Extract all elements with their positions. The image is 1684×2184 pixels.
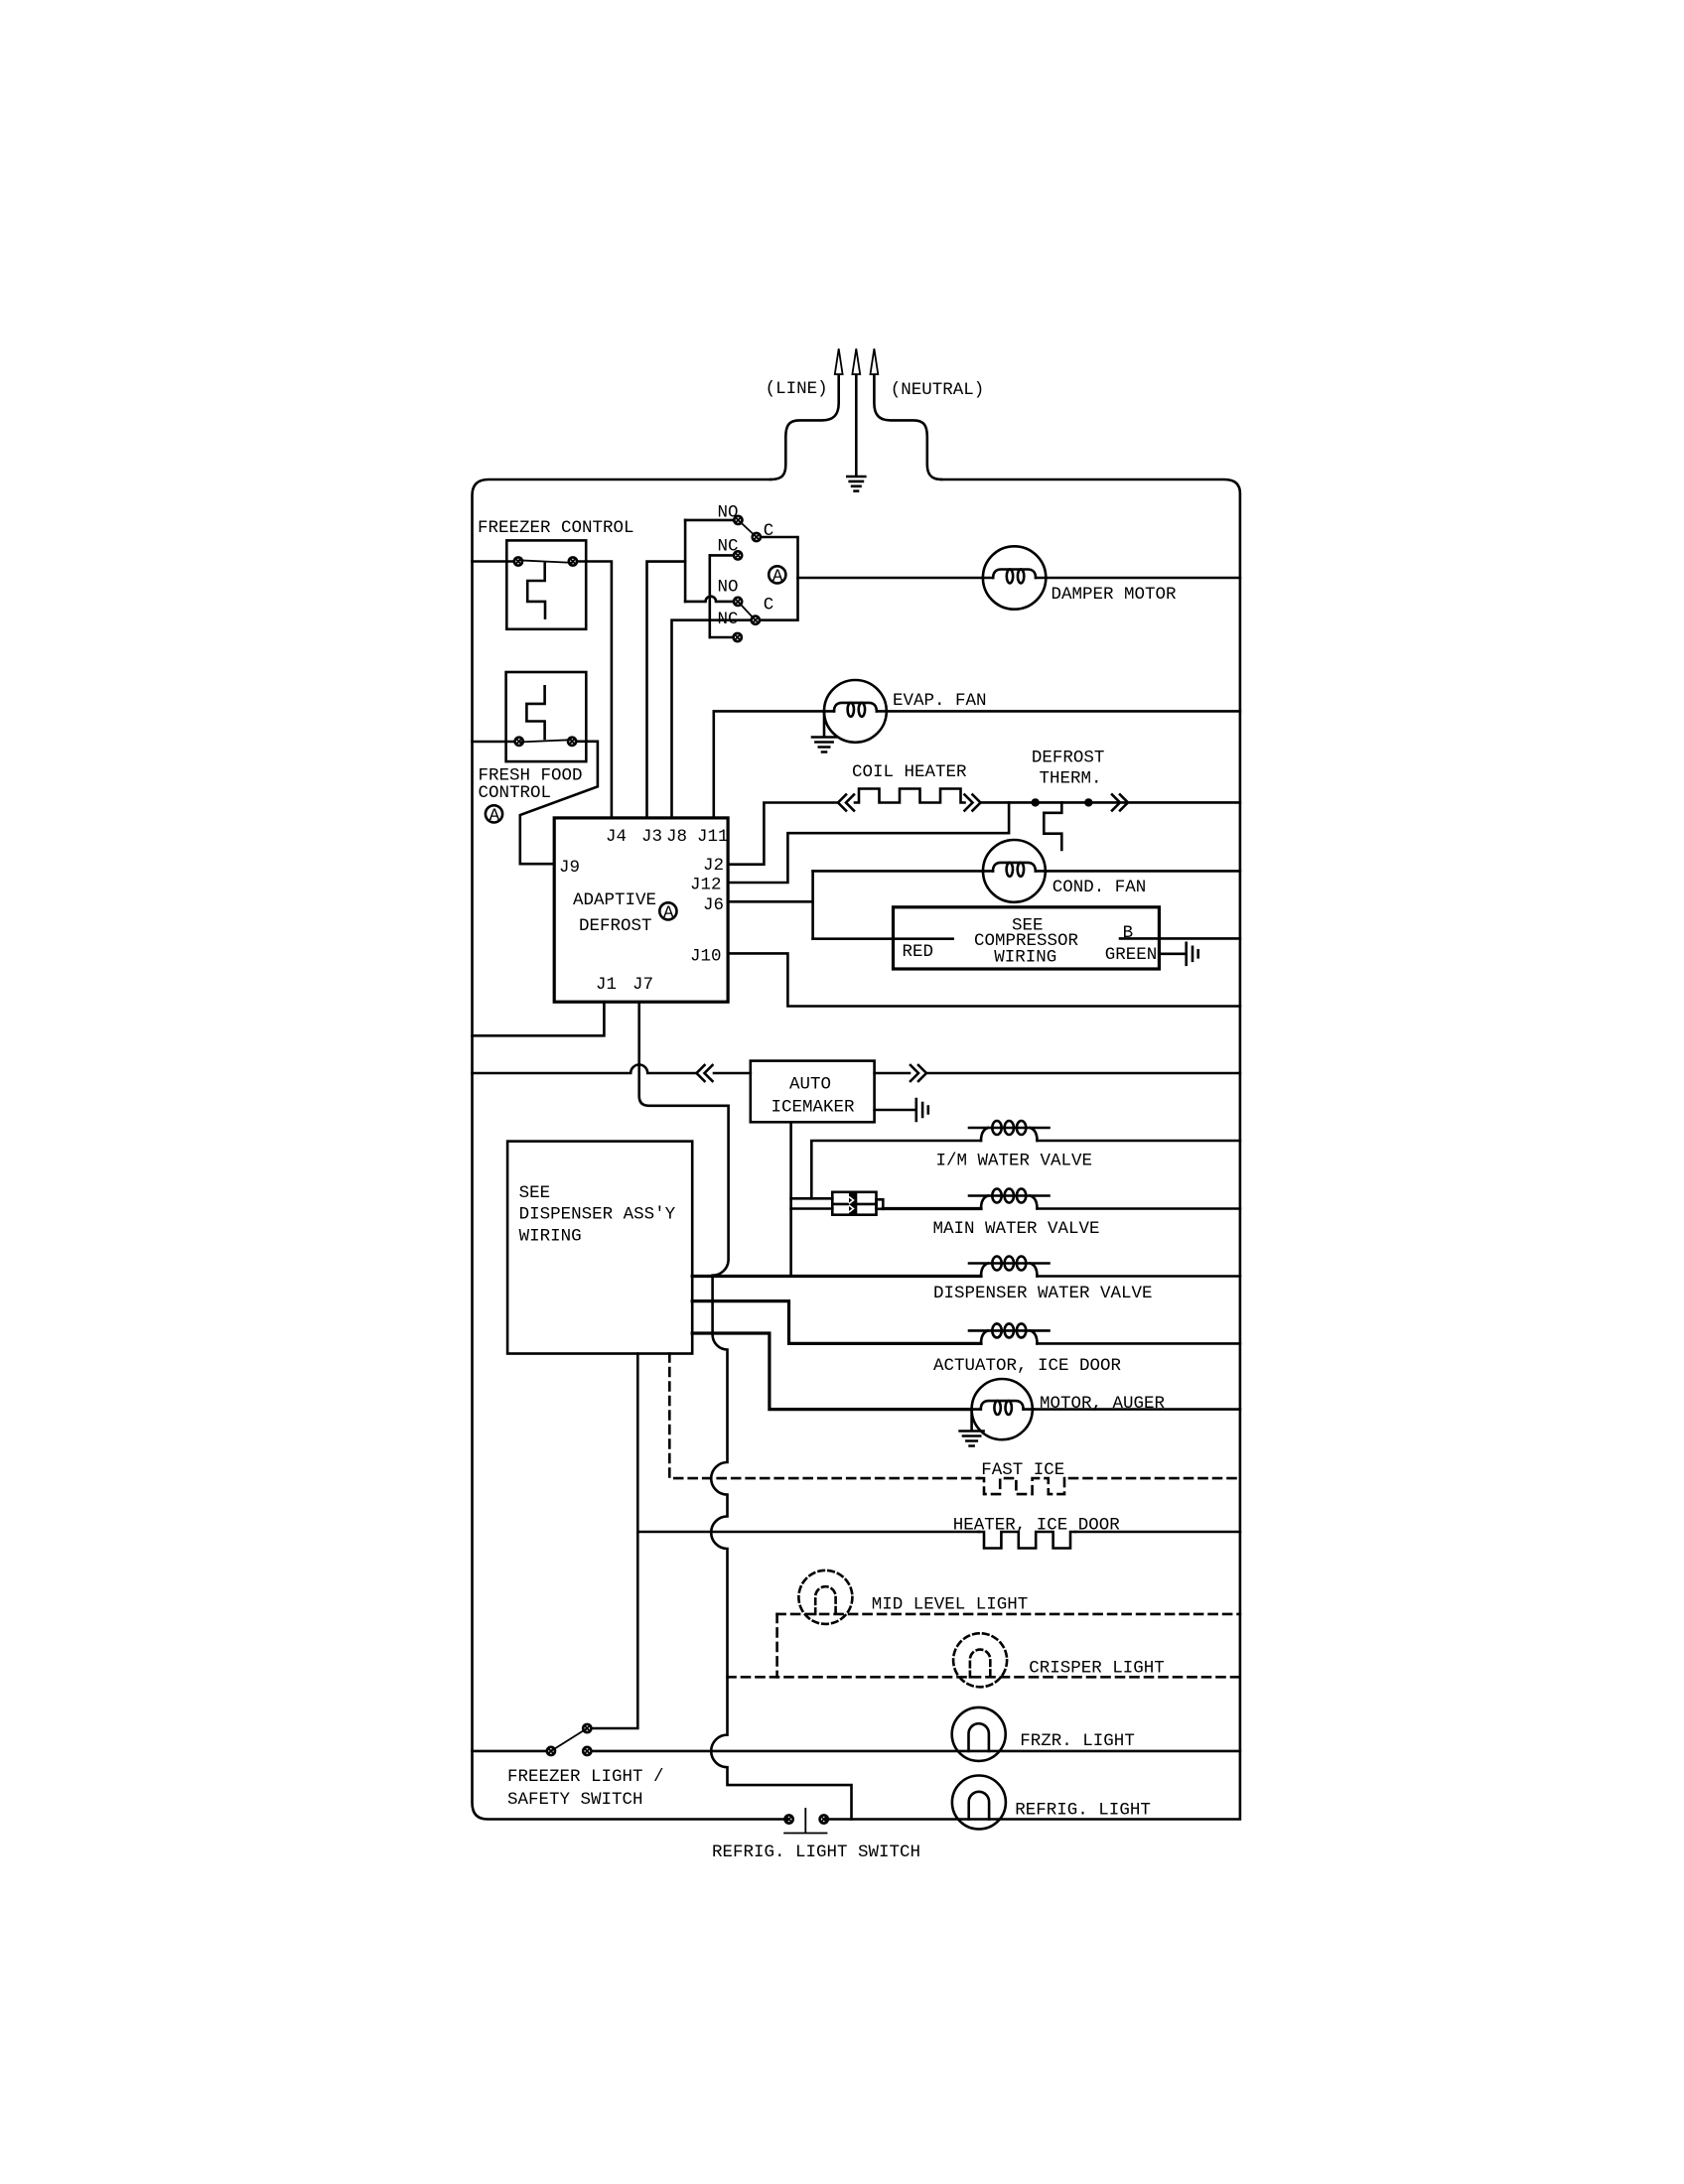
wire: NC2 stub <box>710 636 734 639</box>
wire: fast ice to neutral bus <box>1069 1477 1240 1480</box>
wire: dispenser box to actuator coil <box>692 1301 981 1344</box>
svg-text:J8: J8 <box>666 827 687 847</box>
wire: crisper light line <box>728 1676 1240 1679</box>
svg-text:(LINE): (LINE) <box>766 379 828 399</box>
terminal NO2 <box>734 598 742 606</box>
auger motor circle <box>972 1379 1033 1439</box>
cond fan circle <box>983 840 1046 902</box>
svg-text:ACTUATOR, ICE DOOR: ACTUATOR, ICE DOOR <box>933 1356 1122 1376</box>
svg-text:WIRING: WIRING <box>994 947 1056 967</box>
svg-text:FRZR. LIGHT: FRZR. LIGHT <box>1020 1731 1135 1751</box>
svg-text:CRISPER LIGHT: CRISPER LIGHT <box>1029 1659 1165 1679</box>
switch blade (freezer light) <box>551 1728 587 1751</box>
connector chevrons (icemaker left) <box>697 1065 713 1081</box>
wire: mid level light line <box>777 1613 1240 1616</box>
refrigerator light lamp <box>952 1776 1006 1830</box>
svg-text:ADAPTIVE: ADAPTIVE <box>573 890 656 910</box>
damper motor circle <box>983 546 1046 609</box>
wire: I/M valve feed riser <box>811 1141 981 1198</box>
svg-text:REFRIG. LIGHT: REFRIG. LIGHT <box>1015 1801 1151 1821</box>
wire: connector lower feed <box>791 1207 833 1210</box>
svg-text:J9: J9 <box>559 858 580 878</box>
svg-text:C: C <box>764 596 774 615</box>
relay box outline <box>760 537 797 620</box>
wire: freezer light line <box>592 1750 1240 1753</box>
wire: relay output to damper motor <box>798 577 984 580</box>
wire: dispenser box to auger motor <box>692 1333 971 1410</box>
svg-text:FREEZER CONTROL: FREEZER CONTROL <box>478 518 634 538</box>
wire: outer border right side (NEUTRAL bus) <box>824 479 1240 1820</box>
auger motor winding <box>970 1401 1034 1415</box>
adaptive defrost box <box>554 818 728 1002</box>
svg-text:AUTO: AUTO <box>789 1074 831 1094</box>
freezer control box <box>506 540 586 628</box>
terminal C1 <box>753 533 761 541</box>
terminal (fresh food right) <box>568 738 576 746</box>
wire: J2 to coil heater <box>728 803 837 865</box>
svg-text:DEFROST: DEFROST <box>1032 749 1105 768</box>
fresh food control box <box>506 672 587 761</box>
dispenser assembly box <box>507 1142 692 1354</box>
svg-text:GREEN: GREEN <box>1105 945 1158 965</box>
terminal (refrig switch left) <box>785 1815 793 1823</box>
ground symbol (auger motor) <box>960 1432 984 1446</box>
connector chevrons (coil heater left) <box>838 795 854 811</box>
svg-text:DISPENSER WATER VALVE: DISPENSER WATER VALVE <box>933 1284 1153 1303</box>
svg-text:HEATER, ICE DOOR: HEATER, ICE DOOR <box>953 1515 1121 1535</box>
svg-text:J4: J4 <box>606 827 627 847</box>
svg-text:SAFETY SWITCH: SAFETY SWITCH <box>507 1790 643 1810</box>
wire: LINE entry lead <box>771 372 839 479</box>
wire: connector upper feed <box>791 1197 833 1200</box>
svg-text:J11: J11 <box>697 827 729 847</box>
wire: damper motor to neutral bus <box>1046 577 1240 580</box>
switch blade upper (NO1-C1) <box>738 520 756 537</box>
thermostat element (fresh food control) <box>526 686 544 739</box>
wire: J8 riser to C2 <box>672 620 752 818</box>
wire: icemaker ground lead <box>875 1109 915 1112</box>
switch blade (fresh food control) <box>519 740 572 742</box>
thermostat element (freezer control) <box>527 564 545 618</box>
svg-text:J3: J3 <box>641 827 662 847</box>
auto icemaker box <box>751 1061 875 1123</box>
svg-text:NO: NO <box>718 578 739 598</box>
wire: auger motor to neutral bus <box>1033 1408 1240 1411</box>
wire: J10 run to neutral bus <box>728 953 1240 1006</box>
board label circle A <box>659 902 676 923</box>
refrig light switch plunger <box>783 1808 827 1834</box>
chassis ground (icemaker) <box>916 1099 928 1121</box>
svg-text:C: C <box>764 521 774 541</box>
connector chevrons (defrost line right) <box>1112 794 1128 810</box>
arrowhead NEUTRAL <box>871 348 879 374</box>
wire: GREEN lead to chassis ground <box>1159 952 1185 955</box>
junction dot 2 <box>1084 798 1092 806</box>
junction dot 1 <box>1032 798 1040 806</box>
svg-text:NC: NC <box>718 610 739 629</box>
svg-text:J7: J7 <box>632 975 653 995</box>
terminal NC1 <box>734 551 742 559</box>
svg-text:MAIN WATER VALVE: MAIN WATER VALVE <box>933 1219 1100 1239</box>
solenoid coil (main water valve) <box>969 1189 1050 1209</box>
svg-text:FAST ICE: FAST ICE <box>981 1460 1064 1480</box>
ground symbol (evap fan) <box>812 738 836 752</box>
evap fan circle <box>824 680 887 743</box>
compressor wiring box <box>894 907 1160 969</box>
svg-text:WIRING: WIRING <box>519 1227 582 1247</box>
svg-text:THERM.: THERM. <box>1040 768 1102 788</box>
svg-text:(NEUTRAL): (NEUTRAL) <box>891 380 985 400</box>
wire: auger ground stem <box>970 1410 973 1431</box>
wire: left bus to fresh food control <box>473 741 515 744</box>
svg-text:COND. FAN: COND. FAN <box>1052 878 1147 897</box>
wire: cond fan feed <box>813 870 983 873</box>
solenoid coil (I/M water valve) <box>969 1121 1050 1141</box>
mid level light lamp <box>798 1570 852 1624</box>
svg-text:NC: NC <box>718 537 739 557</box>
wire: dispenser box to dispenser valve coil <box>692 1275 981 1278</box>
wire: connector to main valve coil <box>883 1207 981 1210</box>
chassis ground (compressor GREEN) <box>1187 943 1198 965</box>
wire: actuator to neutral bus <box>1038 1342 1240 1345</box>
wire: coil heater to defrost thermostat junctions <box>981 801 1240 804</box>
defrost thermostat element <box>1044 802 1061 850</box>
wire: evap fan to neutral bus <box>887 710 1240 713</box>
wire: line bus to icemaker with hop over J7 drop <box>473 1065 697 1074</box>
wire: B lead to neutral bus <box>1120 937 1240 940</box>
terminal (freezer light right) <box>583 1747 591 1755</box>
terminal (fresh food left) <box>515 738 523 746</box>
wire: ice door heater line <box>637 1531 979 1534</box>
wire: J6 output <box>728 900 813 903</box>
inline connector body <box>832 1192 883 1215</box>
wire: outer border left side (LINE bus) <box>473 479 789 1820</box>
arrowhead LINE <box>835 348 843 374</box>
terminal (freezer light upper) <box>583 1724 591 1732</box>
wire: icemaker output to neutral bus <box>927 1072 1240 1075</box>
cond fan winding <box>982 863 1046 877</box>
wire: chevrons to icemaker box <box>714 1072 751 1075</box>
svg-text:DEFROST: DEFROST <box>579 916 652 936</box>
relay label circle A <box>769 566 785 587</box>
wire: NEUTRAL entry lead <box>874 372 941 479</box>
wire: lower NO feed with hop over NC link <box>685 597 734 602</box>
wire: line bus to switch <box>473 1750 548 1753</box>
wire: fresh food control to J9 <box>520 742 598 864</box>
svg-text:J2: J2 <box>703 856 724 876</box>
svg-text:I/M WATER VALVE: I/M WATER VALVE <box>936 1151 1093 1170</box>
evap fan winding <box>823 703 887 717</box>
wire: freezer control to J4 <box>577 562 612 818</box>
wire: evap fan ground stem <box>823 711 826 736</box>
wire: NC1 stub <box>710 554 734 557</box>
svg-text:CONTROL: CONTROL <box>479 783 552 803</box>
switch blade (freezer control) <box>518 560 573 563</box>
svg-text:J6: J6 <box>703 895 724 915</box>
terminal NC2 <box>734 633 742 641</box>
svg-text:J12: J12 <box>690 876 722 895</box>
terminal NO1 <box>734 516 742 524</box>
fast ice heater element <box>979 1478 1069 1494</box>
wire: dashed drop from dispenser box <box>669 1354 979 1479</box>
coil heater element <box>855 789 965 803</box>
circle A (fresh food control) <box>486 805 502 826</box>
crisper light lamp <box>953 1633 1007 1687</box>
connector chevrons (icemaker right) <box>911 1065 926 1081</box>
svg-text:J10: J10 <box>690 946 722 966</box>
wire: J11 riser and evap fan feed <box>714 711 824 818</box>
wire: ground entry lead <box>855 372 858 475</box>
wire: switch assembly left bus <box>684 520 687 602</box>
ground symbol (supply earth) <box>847 477 865 491</box>
wire: J6 branch vertical <box>811 871 814 938</box>
wire: icemaker drop to water valve node <box>789 1122 792 1276</box>
connector chevrons (coil heater right) <box>965 795 981 811</box>
wire: feed drop from dispenser box to freezer light switch <box>592 1354 638 1729</box>
wire: left bus to freezer control <box>473 560 515 563</box>
terminal (freezer control right) <box>569 557 577 565</box>
wire: J3 riser to switch common bus <box>647 562 686 818</box>
svg-text:MID LEVEL LIGHT: MID LEVEL LIGHT <box>872 1595 1029 1615</box>
ice door heater element <box>979 1532 1075 1549</box>
terminal (freezer light common) <box>547 1747 555 1755</box>
svg-text:RED: RED <box>903 942 934 962</box>
wire: main valve to neutral bus <box>1038 1207 1240 1210</box>
wire: icemaker to chevrons right <box>875 1072 910 1075</box>
arrowhead ground <box>852 348 860 374</box>
svg-text:DAMPER MOTOR: DAMPER MOTOR <box>1052 585 1178 605</box>
svg-text:DISPENSER ASS'Y: DISPENSER ASS'Y <box>519 1204 676 1224</box>
switch blade lower (NO2-C2) <box>738 602 756 620</box>
svg-text:FREEZER LIGHT /: FREEZER LIGHT / <box>507 1767 664 1787</box>
wire: NC link vertical <box>708 555 711 637</box>
freezer light lamp <box>952 1707 1006 1761</box>
terminal C2 <box>752 616 760 624</box>
solenoid coil (ice door actuator) <box>969 1323 1050 1343</box>
svg-text:SEE: SEE <box>519 1183 551 1203</box>
terminal (freezer control left) <box>514 557 522 565</box>
damper motor winding <box>983 569 1047 583</box>
svg-text:J1: J1 <box>596 975 617 995</box>
svg-text:REFRIG. LIGHT SWITCH: REFRIG. LIGHT SWITCH <box>712 1843 920 1862</box>
svg-text:ICEMAKER: ICEMAKER <box>772 1098 856 1118</box>
wire: J12 run to defrost line <box>728 802 1009 883</box>
wire: dispenser valve to neutral bus <box>1038 1275 1240 1278</box>
svg-text:B: B <box>1123 923 1134 943</box>
wire: ice door heater to neutral bus <box>1075 1531 1240 1534</box>
svg-text:COIL HEATER: COIL HEATER <box>852 762 967 782</box>
svg-text:NO: NO <box>718 503 739 523</box>
wire: RED lead into compressor box <box>813 937 953 940</box>
solenoid coil (dispenser water valve) <box>969 1257 1050 1277</box>
wire: cond fan to neutral bus <box>1046 870 1240 873</box>
svg-text:EVAP. FAN: EVAP. FAN <box>893 691 987 711</box>
terminal (refrig switch right) <box>820 1815 828 1823</box>
wire: upper NO feed <box>685 519 734 522</box>
svg-text:MOTOR, AUGER: MOTOR, AUGER <box>1040 1394 1166 1414</box>
wire: mid level drop to crisper line <box>775 1614 778 1677</box>
wire: J7 long vertical feed <box>639 1002 852 1819</box>
wire: J1 to line bus <box>473 1002 605 1035</box>
wire: I/M valve to neutral bus <box>1038 1140 1240 1143</box>
